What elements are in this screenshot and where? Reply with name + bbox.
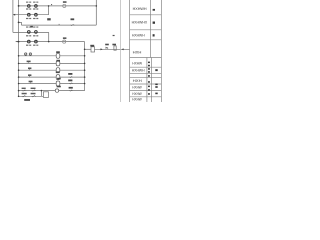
wire rung4: [19, 76, 85, 78]
text labels as smudges: [22, 1, 116, 94]
label coil KA5 bottom: [57, 86, 61, 88]
wire link row3 to row4: [48, 32, 50, 41]
node rung6 left: [18, 90, 20, 92]
wire vertical right riser: [95, 0, 97, 25]
label above CT row1 A: [26, 2, 28, 3]
label below CT row4 A: [26, 45, 28, 46]
table row sep 3: [130, 39, 162, 41]
title row sep b: [130, 72, 162, 74]
coil KM6 circle: [55, 89, 58, 92]
wire bus R vertical: [84, 42, 86, 91]
wire bus L2 vertical: [18, 0, 20, 96]
contact rung4 right: [69, 76, 73, 78]
CT circle row2 B: [35, 13, 38, 16]
node row1 on bus L2: [18, 5, 20, 7]
label coil KA3 bottom: [56, 71, 60, 73]
svg-text:HXHW: HXHW: [132, 98, 141, 102]
svg-text:HXHWHX: HXHWHX: [132, 19, 148, 24]
title row sep d: [130, 90, 162, 92]
instrument symbol rung1 a: [25, 53, 27, 55]
node rung2 left: [18, 63, 20, 65]
title small chars col2: [155, 69, 157, 71]
CT circle row2 A: [28, 13, 31, 16]
node rung7 left: [18, 96, 20, 98]
node dots group: [18, 5, 97, 97]
label coil KA1 top: [56, 51, 60, 53]
table mark row1: [153, 9, 155, 11]
wire rung6: [19, 90, 85, 92]
label contact rung6 b: [31, 88, 36, 89]
relay box K0: [91, 47, 95, 52]
CT circle row3 B: [35, 31, 38, 34]
wire jog from bus L2: [19, 22, 22, 25]
label above CT row3 B: [33, 27, 35, 28]
table row sep 1: [130, 14, 162, 16]
svg-text:HXHWH: HXHWH: [133, 6, 147, 11]
wire row2 horizontal: [13, 14, 48, 16]
svg-text:HXHW: HXHW: [132, 85, 141, 89]
svg-text:HXHWH: HXHWH: [132, 32, 145, 37]
label dark tag row3: [30, 26, 33, 28]
label coil KA4 bottom: [57, 78, 61, 80]
table mark row3: [153, 34, 155, 36]
arrow outgoing mid: [101, 48, 103, 50]
CT circle row4 B: [35, 40, 38, 43]
label below CT row4 B: [33, 45, 35, 46]
node rung5 left: [18, 83, 20, 85]
label coil KA1 bottom: [56, 60, 60, 62]
contact rung6 a: [22, 90, 26, 92]
fuse box FU: [114, 46, 116, 50]
wire row1 horizontal: [19, 5, 97, 7]
table row sep 4: [130, 57, 162, 59]
label below CT row2 A: [26, 18, 28, 19]
node rung5 right: [84, 83, 86, 85]
node rung2 right: [84, 63, 86, 65]
label contact rung5 right: [68, 80, 72, 82]
label rung4: [28, 74, 31, 76]
svg-text:HXHW: HXHW: [132, 62, 142, 66]
wire bus L1 vertical: [12, 0, 14, 32]
label contact rung7 b: [31, 93, 36, 95]
contact rung7 b: [32, 95, 36, 97]
contact rung7 a: [22, 95, 26, 97]
wire link rung6 to rung7: [40, 91, 42, 97]
node rung3 left: [18, 69, 20, 71]
frame line inner right: [119, 0, 121, 102]
label contact rung6 a: [22, 88, 26, 89]
title row sep a: [130, 66, 162, 68]
node relay branch on bus R: [84, 49, 86, 51]
label lamp HL2: [63, 37, 67, 39]
wire relay branch: [85, 48, 91, 50]
label wire number mid: [47, 18, 51, 20]
title small chars col1: [148, 62, 150, 64]
contact rung5 right: [69, 83, 73, 85]
label lamp HL1: [63, 1, 67, 3]
node rung4 right: [84, 76, 86, 78]
label contact rung6 right: [69, 87, 73, 89]
label contact rung4 right: [68, 73, 72, 75]
CT circle row1 B: [35, 5, 38, 8]
arrow outgoing right: [121, 48, 123, 50]
label contact SW: [105, 44, 109, 46]
wire row3 horizontal: [13, 31, 49, 33]
lamp HL1: [63, 4, 66, 7]
label above CT row1 B: [33, 2, 35, 3]
label above CT row3 A: [26, 27, 28, 28]
table cell texts: [132, 6, 158, 102]
label below CT row1 B: [33, 8, 35, 9]
label rung5: [29, 81, 33, 83]
node row1 at riser: [48, 5, 50, 7]
CT circle row4 A: [28, 40, 31, 43]
node rung3 right: [84, 69, 86, 71]
node row4 on bus L2: [18, 41, 20, 43]
node rung6 branch: [41, 90, 43, 92]
table col upper: [149, 0, 151, 58]
svg-text:HXH: HXH: [133, 51, 142, 55]
timer box KT: [43, 92, 48, 98]
wire rung3: [19, 69, 85, 71]
tick above row1 wire: [51, 4, 52, 5]
coil KA1: [56, 53, 60, 58]
label rung3: [28, 68, 31, 70]
wire long horizontal mid: [21, 24, 96, 26]
title row sep c: [130, 83, 162, 85]
wire rung2: [19, 62, 85, 64]
lamp HL2: [63, 40, 66, 43]
coil KA2: [56, 61, 60, 66]
title row sep b2: [130, 76, 162, 78]
label rung2: [27, 61, 31, 63]
wire rung5: [19, 83, 85, 85]
arrow row2 to bus L1: [13, 14, 15, 16]
coil KA3: [56, 68, 60, 73]
coil KA5: [56, 81, 60, 86]
title col 2: [151, 58, 153, 103]
wire junction link row2 to row1: [48, 6, 50, 15]
node rung1 left: [18, 55, 20, 57]
label fuse FU: [112, 44, 116, 46]
node row4 at link: [48, 41, 50, 43]
label below CT row1 A: [26, 8, 28, 9]
CT circle row1 A: [28, 5, 31, 8]
wire row4 horizontal: [16, 41, 85, 43]
label below CT row3 B: [33, 35, 35, 36]
label below CT row3 A: [26, 35, 28, 36]
label relay K0: [90, 45, 94, 47]
label tiny near frame: [113, 35, 115, 36]
node riser top: [96, 5, 98, 7]
node jog on bus L2: [18, 22, 20, 24]
tick on long mid wire: [58, 24, 61, 25]
node rung4 left: [18, 76, 20, 78]
wire relay branch out: [95, 48, 130, 50]
contact rung6 right: [69, 90, 73, 92]
instrument symbol rung1 b: [29, 53, 31, 55]
table mark row2: [153, 22, 155, 24]
label below CT row2 B: [33, 18, 35, 19]
svg-text:HXHW: HXHW: [132, 92, 141, 96]
table outline: [130, 0, 162, 102]
svg-text:HXHWH: HXHWH: [132, 68, 145, 72]
arrow row4 left end: [16, 41, 18, 42]
wire rung7: [19, 95, 44, 97]
table row sep 2: [130, 29, 162, 31]
label below rung7: [24, 99, 30, 101]
contact SW mid: [105, 47, 108, 49]
contact rung6 b: [32, 90, 36, 92]
label contact rung7 a: [22, 93, 27, 95]
node rung1 right: [84, 55, 86, 57]
title row sep e: [130, 96, 162, 98]
CT circle row3 A: [28, 31, 31, 34]
label above mid wire contact: [71, 18, 75, 20]
contact on long mid wire: [70, 24, 74, 26]
wire rung1: [19, 55, 85, 57]
svg-text:HXH: HXH: [133, 79, 143, 83]
title col 1: [146, 58, 148, 103]
coil KA4: [56, 75, 60, 80]
